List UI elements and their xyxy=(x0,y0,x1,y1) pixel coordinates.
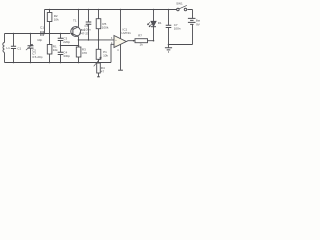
svg-text:9V: 9V xyxy=(196,22,200,26)
svg-text:3.5-20p: 3.5-20p xyxy=(32,55,43,59)
transistor T1 xyxy=(71,10,89,48)
svg-text:1k: 1k xyxy=(140,43,144,47)
node output junction xyxy=(133,40,135,42)
resistor R3 xyxy=(76,47,87,63)
capacitor C6 (rail to collector node) xyxy=(84,10,91,40)
battery BT1 9V xyxy=(188,10,201,45)
svg-text:100n: 100n xyxy=(84,27,91,31)
svg-text:100n: 100n xyxy=(174,27,181,31)
svg-text:C1: C1 xyxy=(40,26,44,30)
svg-text:T1: T1 xyxy=(73,19,77,23)
svg-text:LM741: LM741 xyxy=(122,31,132,35)
wire battery/C7 ground return xyxy=(169,44,193,46)
svg-text:547-25: 547-25 xyxy=(79,32,89,36)
wire bottom ground rail xyxy=(5,62,112,64)
node ground return junction xyxy=(168,44,170,46)
switch SW1 xyxy=(176,2,187,11)
wire signal line xyxy=(5,33,71,35)
node top rail junctions xyxy=(49,9,51,11)
wire C3/C4 junction to emitter xyxy=(61,45,79,47)
resistor R2 xyxy=(47,10,59,34)
resistor R1 xyxy=(47,34,58,63)
node collector line junctions xyxy=(78,39,80,41)
wire top rail left drop to signal line xyxy=(44,10,46,34)
svg-text:C1: C1 xyxy=(17,46,21,50)
svg-text:330p: 330p xyxy=(63,54,70,58)
svg-text:100k: 100k xyxy=(102,25,109,29)
LED D1 xyxy=(147,10,162,41)
capacitor C1 (tank) xyxy=(11,34,22,63)
trimmer capacitor C2 xyxy=(26,34,43,63)
wire top supply rail xyxy=(45,9,193,11)
resistor R7 xyxy=(135,33,148,46)
wire op-amp output xyxy=(126,40,153,43)
svg-text:10k: 10k xyxy=(53,48,58,52)
node bottom rail junctions xyxy=(13,62,15,64)
svg-text:D1: D1 xyxy=(158,21,162,25)
svg-text:220p: 220p xyxy=(63,40,70,44)
capacitor C3 xyxy=(58,34,71,46)
capacitor C4 (emitter bypass) xyxy=(58,46,71,63)
op-amp IC1 xyxy=(111,10,131,71)
svg-text:3: 3 xyxy=(111,37,113,40)
node LED output junction xyxy=(153,40,155,42)
node signal line junctions xyxy=(13,33,15,35)
svg-text:4: 4 xyxy=(117,49,119,52)
wire collector node line to op-amp input xyxy=(79,39,115,41)
inductor L1 xyxy=(3,34,10,63)
svg-text:47: 47 xyxy=(101,70,105,74)
svg-text:10k: 10k xyxy=(103,54,108,58)
node emitter junction xyxy=(78,45,80,47)
svg-text:10k: 10k xyxy=(54,18,59,22)
resistor R4 below rail xyxy=(97,63,105,77)
svg-text:470: 470 xyxy=(82,51,87,55)
ground (right) xyxy=(165,45,172,53)
preset P1 xyxy=(94,40,109,66)
svg-text:L1: L1 xyxy=(6,46,10,50)
svg-text:10p: 10p xyxy=(37,38,42,42)
svg-text:SW1: SW1 xyxy=(176,2,183,6)
resistor R5 xyxy=(96,10,109,40)
capacitor C1 (series coupling) xyxy=(31,26,50,42)
svg-text:R7: R7 xyxy=(138,33,142,37)
capacitor C7 (supply decoupling) xyxy=(166,10,181,45)
